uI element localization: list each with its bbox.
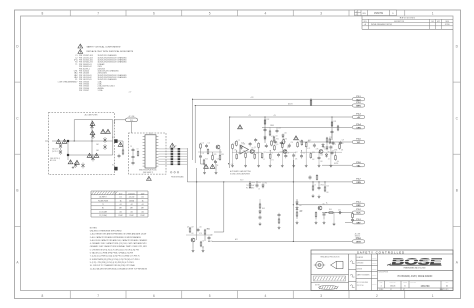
svg-text:NOTES:: NOTES: — [90, 227, 98, 229]
svg-text:GRN: GRN — [356, 127, 361, 129]
svg-text:L31: L31 — [202, 153, 205, 155]
svg-text:VIO: VIO — [357, 142, 361, 144]
svg-text:REVISIONS: REVISIONS — [400, 18, 416, 20]
svg-text:5/17/96: 5/17/96 — [372, 284, 376, 286]
svg-text:2200P: 2200P — [118, 215, 122, 217]
svg-text:B+: B+ — [326, 203, 328, 205]
svg-text:VA2: VA2 — [96, 143, 99, 146]
svg-text:6. VALUE (CC) PWB (P/N) PWB 2: 6. VALUE (CC) PWB (P/N) PWB 2 (PWA) (L70… — [90, 252, 134, 255]
svg-text:C40: C40 — [217, 158, 220, 160]
svg-text:4: 4 — [264, 11, 266, 15]
svg-text:C33: C33 — [243, 144, 246, 146]
svg-text:3: 3 — [320, 11, 322, 15]
svg-text:8: 8 — [41, 294, 43, 298]
svg-text:REV: REV — [363, 13, 366, 15]
svg-text:115: 115 — [119, 197, 122, 199]
svg-text:CR7: CR7 — [299, 205, 302, 207]
svg-text:DESCRIPTION: DESCRIPTION — [379, 272, 388, 274]
svg-text:+5V: +5V — [273, 115, 276, 117]
svg-text:-02: -02 — [130, 204, 132, 206]
svg-text:4R7: 4R7 — [119, 208, 122, 210]
svg-text:4.7K: 4.7K — [316, 149, 319, 151]
svg-text:WHT: WHT — [356, 242, 361, 244]
svg-text:R1: R1 — [102, 208, 104, 210]
svg-text:NO. 15 DWG REF:: NO. 15 DWG REF: — [357, 282, 369, 284]
svg-text:470: 470 — [275, 142, 277, 144]
svg-text:UNLESS OTHERWISE SPECIFIED:: UNLESS OTHERWISE SPECIFIED: — [90, 231, 123, 233]
svg-text:DESCRIPTION: DESCRIPTION — [394, 21, 404, 23]
svg-text:P1-1: P1-1 — [130, 120, 133, 122]
svg-text:DWG NO.: DWG NO. — [411, 282, 417, 284]
svg-text:1.25A: 1.25A — [98, 89, 104, 92]
svg-text:REV: REV — [446, 282, 449, 284]
svg-text:AC LINE: AC LINE — [129, 115, 135, 118]
svg-text:R48: R48 — [262, 208, 265, 210]
svg-text:470: 470 — [271, 159, 273, 161]
svg-text:C2 (Y-CAP): C2 (Y-CAP) — [99, 214, 107, 217]
svg-text:10K: 10K — [295, 159, 297, 161]
svg-text:P/N 178547: P/N 178547 — [79, 90, 89, 92]
svg-text:1581769: 1581769 — [374, 13, 384, 15]
svg-text:R29: R29 — [214, 154, 217, 156]
svg-text:BRN: BRN — [356, 106, 361, 108]
svg-text:L29: L29 — [275, 135, 278, 137]
svg-text:C: C — [456, 116, 459, 120]
svg-text:8. SUBSTRATE (W) (P/N) (CC50): 8. SUBSTRATE (W) (P/N) (CC50) (L70) PW (… — [90, 258, 140, 261]
svg-text:C1: C1 — [271, 153, 273, 155]
svg-text:E1: E1 — [112, 137, 114, 139]
svg-text:16124: 16124 — [390, 286, 395, 288]
svg-text:T1: T1 — [75, 64, 77, 66]
svg-text:DATE: DATE — [445, 20, 449, 23]
svg-text:TO DISPLAY: TO DISPLAY — [246, 184, 254, 187]
svg-text:A: A — [456, 261, 459, 265]
svg-text:2200P: 2200P — [129, 215, 133, 217]
svg-text:1A: 1A — [142, 199, 144, 202]
svg-text:.022: .022 — [141, 211, 144, 213]
svg-text:VA3: VA3 — [96, 149, 99, 152]
svg-text:AC INPUT: AC INPUT — [99, 196, 106, 199]
svg-text:REV: REV — [364, 21, 367, 23]
svg-text:+5V: +5V — [248, 115, 251, 117]
svg-text:SAFETY CONTROLLED: SAFETY CONTROLLED — [357, 250, 405, 254]
svg-text:SAFETY ENGINEER: SAFETY ENGINEER — [357, 274, 370, 277]
svg-text:R29: R29 — [258, 182, 261, 184]
svg-text:C26: C26 — [326, 185, 329, 187]
svg-text:5: 5 — [209, 11, 211, 15]
svg-text:7: 7 — [97, 294, 99, 298]
svg-text:1:1: 1:1 — [390, 289, 392, 291]
svg-text:R51: R51 — [207, 229, 210, 231]
svg-text:220/240V: 220/240V — [128, 193, 134, 195]
svg-text:Q55: Q55 — [276, 144, 279, 146]
svg-text:5/17/96: 5/17/96 — [372, 269, 376, 271]
svg-text:2. ALL CAPACITORS ARE EXPRESSE: 2. ALL CAPACITORS ARE EXPRESSED IN MICRO… — [90, 236, 142, 239]
svg-text:10K: 10K — [312, 159, 314, 161]
svg-text:.022: .022 — [130, 211, 133, 213]
svg-text:REMOTE/DISPLAY P.C.BD.: REMOTE/DISPLAY P.C.BD. — [139, 169, 157, 172]
svg-text:6: 6 — [153, 11, 155, 15]
svg-text:(NOTE 5): (NOTE 5) — [52, 151, 59, 153]
svg-text:VREF: VREF — [270, 125, 274, 127]
svg-text:(SEE NOTE 4): (SEE NOTE 4) — [50, 158, 60, 160]
svg-text:GRY: GRY — [356, 222, 361, 224]
svg-text:C1 (X-CAP): C1 (X-CAP) — [99, 210, 107, 213]
svg-text:Q3: Q3 — [287, 147, 289, 149]
svg-text:1K: 1K — [258, 189, 260, 191]
svg-text:NOTES: NOTES — [315, 284, 320, 286]
svg-text:DESIGN: DESIGN — [357, 268, 362, 270]
svg-text:INITIAL RELEASE 1581769: INITIAL RELEASE 1581769 — [371, 23, 392, 26]
svg-text:AC LINE: AC LINE — [355, 232, 360, 235]
svg-text:R32: R32 — [276, 138, 279, 140]
svg-text:1: 1 — [356, 11, 357, 13]
svg-text:C13: C13 — [283, 140, 286, 142]
svg-text:L55: L55 — [202, 142, 205, 144]
svg-text:D: D — [404, 286, 406, 288]
svg-text:MUTE: MUTE — [334, 163, 338, 165]
svg-text:5/17/96: 5/17/96 — [372, 258, 376, 260]
svg-text:Q18: Q18 — [278, 127, 281, 129]
svg-text:5: 5 — [209, 294, 211, 298]
svg-text:B: B — [16, 188, 18, 192]
svg-text:CHK: CHK — [431, 21, 434, 23]
svg-text:C53: C53 — [291, 142, 294, 144]
svg-text:AC1: AC1 — [235, 238, 238, 241]
svg-text:DRAFTER: DRAFTER — [357, 256, 363, 259]
svg-text:R12: R12 — [267, 119, 270, 121]
svg-text:10K: 10K — [320, 161, 322, 163]
svg-text:1: 1 — [432, 294, 434, 298]
svg-text:AC LINE FILTER: AC LINE FILTER — [85, 114, 99, 117]
svg-text:FRAMINGHAM, MA 01701-9168: FRAMINGHAM, MA 01701-9168 — [404, 267, 426, 270]
svg-text:Q5: Q5 — [323, 204, 325, 206]
svg-text:5/17/96: 5/17/96 — [445, 24, 450, 26]
svg-text:5/17/96: 5/17/96 — [372, 275, 376, 277]
svg-text:1A: 1A — [120, 199, 122, 202]
svg-text:SHEET 1 OF 1: SHEET 1 OF 1 — [440, 289, 449, 291]
svg-text:VA1 250V: VA1 250V — [52, 148, 59, 151]
svg-text:CR16: CR16 — [251, 182, 255, 184]
svg-text:C38: C38 — [320, 154, 323, 156]
svg-text:3. ALL FILM CAPACITORS ARE 50V: 3. ALL FILM CAPACITORS ARE 50V, CAPACITO… — [90, 239, 148, 242]
svg-text:1. ALL RESISTORS ARE EXPRESSED: 1. ALL RESISTORS ARE EXPRESSED IN OHMS A… — [90, 233, 147, 236]
svg-text:100V: 100V — [141, 193, 145, 195]
svg-text:115V: 115V — [119, 193, 122, 195]
svg-text:4.7K: 4.7K — [234, 150, 237, 152]
svg-text:CR8: CR8 — [299, 211, 302, 213]
svg-text:L40: L40 — [307, 141, 310, 143]
svg-text:1K: 1K — [217, 165, 219, 167]
svg-text:C17: C17 — [238, 140, 241, 142]
svg-text:P2-4: P2-4 — [356, 123, 361, 126]
svg-text:R44: R44 — [329, 209, 332, 211]
svg-text:470: 470 — [210, 241, 212, 243]
svg-text:C22: C22 — [329, 137, 332, 139]
svg-text:CR16: CR16 — [299, 141, 303, 143]
svg-text:FROM KEYBOARD: FROM KEYBOARD — [171, 176, 184, 179]
svg-text:C29: C29 — [342, 140, 345, 142]
svg-text:10. CIRCUIT PC TRANSISTORS IN: 10. CIRCUIT PC TRANSISTORS IN (P/N) OPTI… — [90, 264, 135, 267]
svg-text:L3: L3 — [314, 184, 316, 186]
svg-text:2200P: 2200P — [140, 215, 144, 217]
svg-text:+12V: +12V — [250, 97, 254, 99]
svg-text:4: 4 — [356, 14, 357, 16]
svg-text:CR23: CR23 — [332, 144, 336, 146]
svg-text:SIZE: SIZE — [380, 282, 383, 284]
svg-text:22: 22 — [324, 149, 326, 151]
svg-text:R39: R39 — [341, 143, 344, 145]
svg-text:L31: L31 — [287, 153, 290, 155]
svg-text:4.7K: 4.7K — [307, 148, 310, 150]
svg-text:C6: C6 — [202, 240, 204, 242]
svg-text:R39: R39 — [221, 154, 224, 156]
svg-text:R31: R31 — [285, 138, 288, 140]
svg-text:CR5: CR5 — [264, 182, 267, 184]
svg-text:9. (L70) . PW (P/N) (CC50) (L7: 9. (L70) . PW (P/N) (CC50) (L70) PW (W) … — [90, 262, 134, 264]
svg-text:CODE: CODE — [403, 282, 407, 284]
svg-text:220-240: 220-240 — [129, 197, 135, 199]
svg-text:THIRD ANGLE PROJECTION: THIRD ANGLE PROJECTION — [320, 255, 339, 258]
svg-text:(SEE SHEET 2): (SEE SHEET 2) — [143, 172, 154, 174]
svg-text:VCO: VCO — [240, 180, 244, 182]
svg-text:10K: 10K — [341, 150, 343, 152]
svg-text:R5: R5 — [328, 152, 330, 154]
svg-text:1: 1 — [432, 11, 434, 15]
svg-text:RED: RED — [356, 205, 361, 207]
svg-text:SELECT: SELECT — [355, 236, 361, 238]
svg-text:01: 01 — [446, 286, 448, 288]
svg-text:C: C — [16, 116, 19, 120]
svg-text:D: D — [456, 44, 459, 48]
svg-text:SAFETY CRITICAL COMPONENTS!: SAFETY CRITICAL COMPONENTS! — [87, 45, 121, 48]
svg-text:252 197 00: 252 197 00 — [357, 285, 364, 287]
svg-text:CERAMIC CHIP CAPACITORS NOMINA: CERAMIC CHIP CAPACITORS NOMINAL TEMP COE… — [90, 245, 148, 248]
svg-text:400MA: 400MA — [129, 199, 134, 202]
svg-text:-01: -01 — [141, 204, 143, 206]
svg-text:CR20: CR20 — [320, 184, 324, 186]
svg-text:AUDIO: AUDIO — [288, 102, 294, 105]
svg-text:C9: C9 — [137, 149, 139, 151]
svg-text:2: 2 — [376, 294, 378, 298]
svg-text:22: 22 — [263, 159, 265, 161]
svg-text:+5V: +5V — [129, 92, 132, 94]
svg-text:100: 100 — [141, 197, 144, 199]
svg-text:T1: T1 — [102, 204, 104, 206]
svg-text:1581769: 1581769 — [421, 286, 431, 288]
svg-text:.01: .01 — [328, 158, 330, 160]
svg-text:A: A — [16, 261, 19, 265]
svg-text:L12: L12 — [303, 153, 306, 155]
svg-text:.022: .022 — [119, 211, 122, 213]
svg-text:BLU: BLU — [356, 99, 361, 101]
svg-text:4R7: 4R7 — [141, 208, 144, 210]
svg-text:C31: C31 — [338, 210, 341, 212]
svg-text:8: 8 — [41, 11, 43, 15]
svg-text:C38: C38 — [284, 142, 287, 144]
svg-text:L46: L46 — [199, 226, 202, 228]
svg-text:ORN: ORN — [356, 182, 361, 184]
svg-text:L49: L49 — [210, 234, 213, 236]
svg-text:CR27: CR27 — [238, 153, 242, 155]
svg-text:SCALE: SCALE — [379, 288, 383, 291]
svg-text:AUTOMATIC GAIN SETTING: AUTOMATIC GAIN SETTING — [230, 170, 252, 173]
svg-text:3: 3 — [320, 294, 322, 298]
svg-text:4R7: 4R7 — [130, 208, 133, 210]
svg-text:100: 100 — [337, 161, 339, 163]
svg-text:Q4: Q4 — [323, 147, 325, 149]
svg-text:APP: APP — [437, 20, 440, 23]
svg-text:L54: L54 — [234, 143, 237, 145]
svg-text:5. CHOKES IN UH (L70) 0.75 UH: 5. CHOKES IN UH (L70) 0.75 UH (L20) 0.75… — [90, 249, 139, 251]
svg-text:R35: R35 — [335, 150, 338, 152]
svg-text:5/17/96: 5/17/96 — [372, 263, 376, 265]
svg-text:Q52: Q52 — [263, 152, 266, 154]
svg-text:FSCM NO.: FSCM NO. — [390, 282, 397, 284]
svg-text:(230V): (230V) — [355, 238, 360, 240]
svg-text:CHECKED: CHECKED — [357, 263, 364, 265]
svg-text:U1: U1 — [149, 133, 151, 135]
svg-text:11. ALL VALUES SHOWN IN ACCORD: 11. ALL VALUES SHOWN IN ACCORDANCE WITH … — [90, 267, 148, 270]
svg-text:B: B — [456, 188, 458, 192]
svg-text:PC BOARD, ASSY, WAVE RADIO: PC BOARD, ASSY, WAVE RADIO — [398, 275, 433, 278]
svg-text:J2: J2 — [175, 146, 177, 148]
svg-text:D: D — [16, 44, 19, 48]
svg-text:Q17: Q17 — [191, 226, 194, 228]
svg-text:1: 1 — [380, 286, 382, 288]
svg-text:E2: E2 — [112, 164, 114, 166]
svg-text:7. (L20) (CC) PWB (CC50) (L70): 7. (L20) (CC) PWB (CC50) (L70) PW 0.5 (W… — [90, 256, 140, 258]
svg-text:C50: C50 — [256, 153, 259, 155]
svg-text:Q2: Q2 — [254, 147, 256, 149]
svg-text:BLK: BLK — [356, 213, 361, 215]
svg-text:F (LINE) FUSE: F (LINE) FUSE — [98, 200, 108, 202]
svg-text:REPLACE ONLY WITH IDENTICAL BO: REPLACE ONLY WITH IDENTICAL BOSE PARTS — [87, 50, 134, 53]
svg-text:6: 6 — [153, 294, 155, 298]
svg-text:R13: R13 — [205, 158, 208, 160]
svg-text:4. CERAMIC DISC CAPACITORS (CD: 4. CERAMIC DISC CAPACITORS (CD) 50V, CHI… — [90, 242, 147, 245]
svg-text:Q41: Q41 — [284, 132, 287, 134]
svg-text:-01: -01 — [119, 204, 121, 206]
svg-text:Q9: Q9 — [187, 227, 189, 229]
svg-text:L55: L55 — [208, 142, 211, 144]
svg-text:10K: 10K — [326, 192, 328, 194]
svg-text:4: 4 — [264, 294, 266, 298]
svg-text:WT: WT — [403, 289, 405, 291]
svg-text:7: 7 — [97, 11, 99, 15]
svg-text:R31: R31 — [334, 121, 337, 123]
svg-text:C8: C8 — [130, 146, 132, 148]
svg-text:LOW OHM ASSEMBLY: LOW OHM ASSEMBLY — [58, 80, 78, 83]
